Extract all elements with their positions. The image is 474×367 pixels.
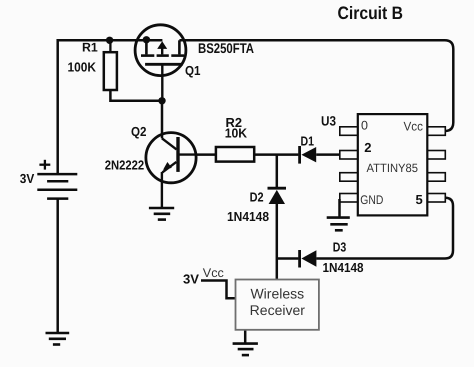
svg-text:D3: D3 [333,239,347,254]
svg-text:3V: 3V [183,271,199,286]
svg-text:Q1: Q1 [185,63,201,78]
svg-text:R1: R1 [82,40,98,54]
wire receiver to ground [244,330,247,343]
svg-text:BS250FTA: BS250FTA [198,40,254,56]
svg-text:Q2: Q2 [131,124,147,139]
svg-text:2N2222: 2N2222 [105,158,145,173]
battery BT1 3V [37,174,77,199]
svg-text:D2: D2 [250,190,264,205]
wire node A to D2 [276,155,279,187]
wireless receiver module [236,280,319,330]
wire D1 to U3 pin 2 [316,153,340,156]
svg-text:U3: U3 [321,113,336,128]
wire R1 bottom to gate node [110,90,162,101]
wire Q1 drain to U3 Vcc pin [179,40,453,131]
svg-text:Wireless: Wireless [250,286,304,302]
wire gate node to Q2 collector [161,101,164,139]
wire Q2 base to R2 [196,153,216,156]
wire battery negative to ground [56,199,59,333]
svg-text:GND: GND [360,193,383,207]
transistor Q2 [146,133,196,208]
junction gate node [158,97,165,104]
ground U3 [327,218,350,231]
wire D2 to wireless receiver [276,204,279,280]
ground battery [46,333,70,345]
svg-text:5: 5 [416,192,423,207]
junction Q1 source [143,36,150,43]
svg-text:Vcc: Vcc [404,119,424,133]
svg-text:Vcc: Vcc [203,266,224,280]
svg-text:Circuit B: Circuit B [338,3,404,23]
svg-text:ATTINY85: ATTINY85 [367,161,419,175]
wire 3V Vcc supply to receiver [201,281,236,299]
svg-text:2: 2 [364,140,371,155]
svg-text:D1: D1 [301,134,315,149]
svg-text:3V: 3V [20,171,35,186]
diode D1 [300,146,317,164]
wire node B to D3 [277,257,299,260]
svg-text:100K: 100K [68,60,97,75]
wire battery positive to top rail [58,40,163,173]
wire R2 to D1 [254,153,298,156]
ground receiver [233,344,258,356]
svg-text:10K: 10K [225,125,248,140]
wire U3 GND pin to ground [338,199,341,218]
svg-text:1N4148: 1N4148 [227,209,269,224]
diode D2 [268,188,287,204]
resistor R2 [216,147,254,162]
junction R1 top [106,37,113,44]
svg-text:0: 0 [361,118,368,132]
resistor R1 [104,40,117,90]
svg-text:Receiver: Receiver [250,302,306,318]
battery positive sign [39,160,50,170]
wire D3 to U3 pin 5 [316,198,453,259]
diode D3 [300,250,317,268]
svg-text:1N4148: 1N4148 [323,260,364,275]
IC U3 ATTINY85 [340,114,446,215]
ground Q2 [149,208,174,220]
MOSFET Q1 [135,25,186,101]
